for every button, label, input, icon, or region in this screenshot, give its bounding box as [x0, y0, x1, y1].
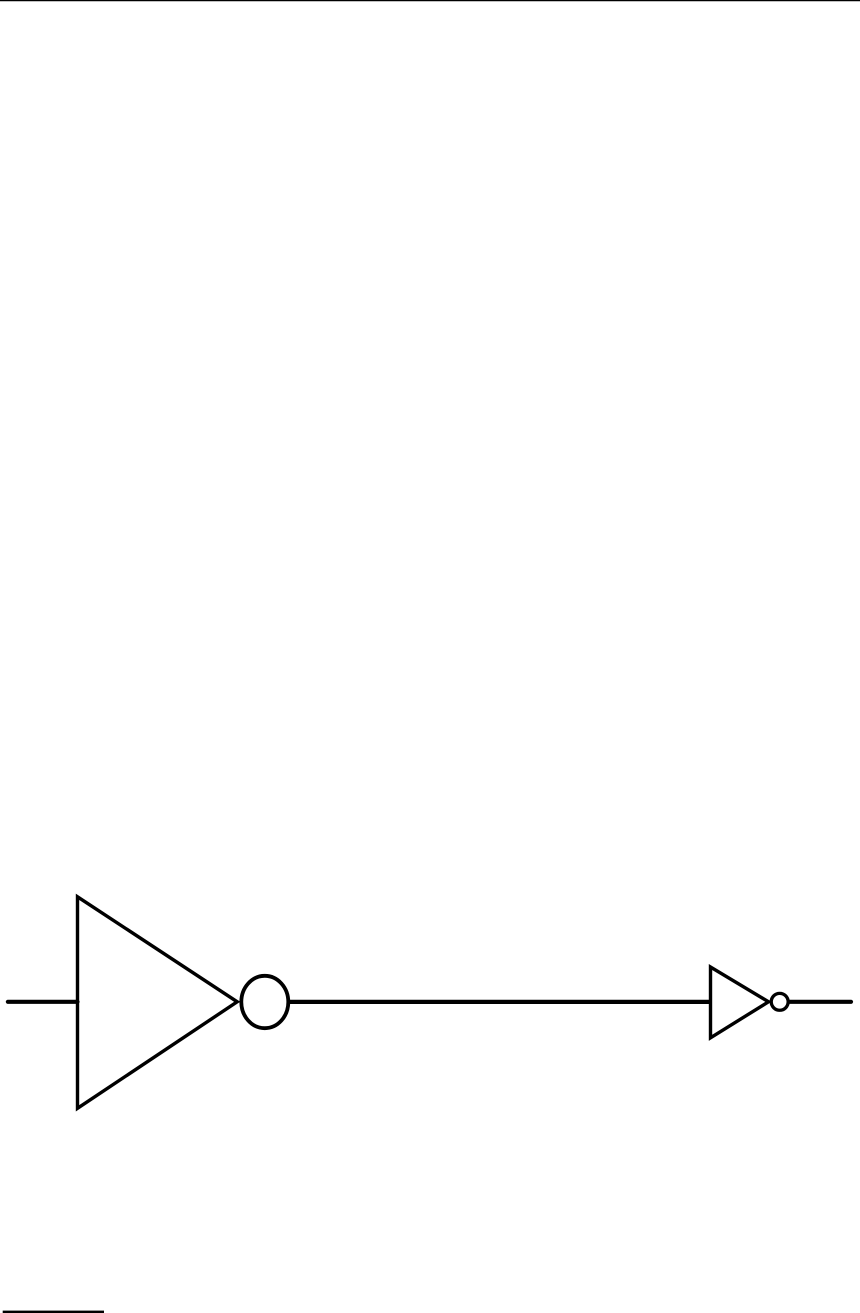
wire: U2 output [790, 1000, 851, 1004]
inverter U2 [711, 967, 789, 1038]
wire: input to inverter U1 [8, 1000, 78, 1004]
inverter U1 [78, 897, 289, 1109]
footnote rule [3, 1311, 104, 1313]
page header rule [0, 0, 860, 1]
wire: node between U1 output and U2 input [290, 1000, 711, 1004]
